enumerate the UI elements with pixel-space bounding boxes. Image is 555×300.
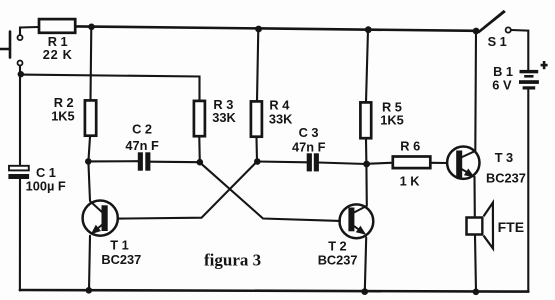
wire S1 to battery top xyxy=(511,30,528,70)
svg-text:FTE: FTE xyxy=(498,219,524,235)
wire T3 emitter to speaker xyxy=(473,177,475,216)
wire node to C3 left xyxy=(257,160,308,163)
wire T1 collector riser xyxy=(88,161,90,201)
capacitor C3 xyxy=(307,153,319,171)
svg-text:1K5: 1K5 xyxy=(51,109,74,124)
pushbutton terminal bottom xyxy=(18,61,23,66)
wire R3 bottom xyxy=(198,138,201,163)
node R5 bottom/R6 xyxy=(363,161,370,168)
wire T2 collector riser xyxy=(365,164,367,206)
resistor R1 xyxy=(39,19,75,33)
svg-text:T 1: T 1 xyxy=(110,238,129,253)
capacitor C2 xyxy=(138,152,151,170)
svg-text:C 3: C 3 xyxy=(299,125,319,140)
wire node to R6 xyxy=(366,163,391,164)
wire node to C2 left xyxy=(89,160,139,162)
node T1 collector/C2 xyxy=(85,158,92,165)
wire R2 bottom xyxy=(88,137,90,161)
transistor T1 xyxy=(83,201,118,236)
wire R2 riser xyxy=(89,27,92,100)
node R5/top rail xyxy=(365,26,372,33)
wire node to T1 base xyxy=(119,162,257,219)
svg-text:47n F: 47n F xyxy=(292,140,326,155)
resistor R3 xyxy=(194,101,205,136)
node C2/R3 bottom xyxy=(197,159,204,166)
svg-text:T 3: T 3 xyxy=(495,150,514,165)
svg-text:22 K: 22 K xyxy=(43,47,73,62)
wire left rail to C1 xyxy=(19,75,21,165)
wire speaker to bottom rail xyxy=(475,236,476,292)
wire C2 right to node xyxy=(150,161,200,164)
resistor R5 xyxy=(360,102,371,138)
wire T1 emitter riser xyxy=(89,236,90,290)
svg-text:33K: 33K xyxy=(212,110,236,125)
svg-text:47n F: 47n F xyxy=(125,138,159,153)
wire pushbutton top to R1 xyxy=(20,27,38,35)
svg-text:C 2: C 2 xyxy=(132,122,152,137)
wire battery bottom to rail xyxy=(527,90,529,292)
svg-text:BC237: BC237 xyxy=(318,253,358,268)
wire R4 bottom xyxy=(255,138,258,162)
pushbutton plunger xyxy=(0,32,10,58)
svg-text:6 V: 6 V xyxy=(492,77,512,92)
wire mid node to R3 top xyxy=(20,75,200,100)
transistor T3 xyxy=(447,147,479,179)
node S1/T3 collector xyxy=(473,28,480,35)
switch S1 xyxy=(477,10,511,33)
svg-text:1 K: 1 K xyxy=(400,173,421,188)
svg-text:T 2: T 2 xyxy=(328,239,347,254)
wire top rail xyxy=(76,26,476,30)
node R4 bottom/C3 xyxy=(254,158,261,165)
wire R4 riser xyxy=(257,29,258,101)
speaker FTE xyxy=(467,203,494,249)
resistor R2 xyxy=(85,100,96,135)
wire R5 bottom xyxy=(365,140,367,165)
wire pushbutton bottom to node xyxy=(19,66,21,75)
wire T3 collector riser xyxy=(474,31,477,151)
node pushbutton/left rail xyxy=(18,71,24,77)
wire node to T2 base xyxy=(200,162,341,221)
wire C1 to bottom rail xyxy=(19,179,21,291)
svg-text:BC237: BC237 xyxy=(486,170,526,185)
node speaker/bottom rail xyxy=(473,289,480,296)
node T2 emitter/bottom rail xyxy=(361,288,368,295)
wire C3 right to node xyxy=(319,163,367,165)
battery B1 xyxy=(519,70,539,90)
svg-text:figura 3: figura 3 xyxy=(204,251,261,270)
svg-text:100µ F: 100µ F xyxy=(26,179,66,194)
transistor T2 xyxy=(340,204,374,238)
svg-text:R 6: R 6 xyxy=(400,139,420,154)
resistor R4 xyxy=(251,101,262,136)
wire T2 emitter riser xyxy=(365,238,366,292)
node R2/top rail xyxy=(88,24,95,31)
pushbutton terminal top xyxy=(18,35,23,40)
wire bottom rail xyxy=(20,290,528,292)
wire R5 riser xyxy=(366,30,368,102)
svg-text:1K5: 1K5 xyxy=(380,112,403,127)
svg-text:BC237: BC237 xyxy=(101,252,141,267)
capacitor C1 xyxy=(8,166,29,179)
node T1 emitter/bottom rail xyxy=(86,287,93,294)
node R4/top rail xyxy=(255,26,262,33)
svg-text:S 1: S 1 xyxy=(488,34,507,49)
resistor R6 xyxy=(393,157,431,169)
svg-text:33K: 33K xyxy=(269,111,293,126)
battery plus sign xyxy=(541,61,548,69)
wire R6 to T3 base xyxy=(432,162,447,164)
